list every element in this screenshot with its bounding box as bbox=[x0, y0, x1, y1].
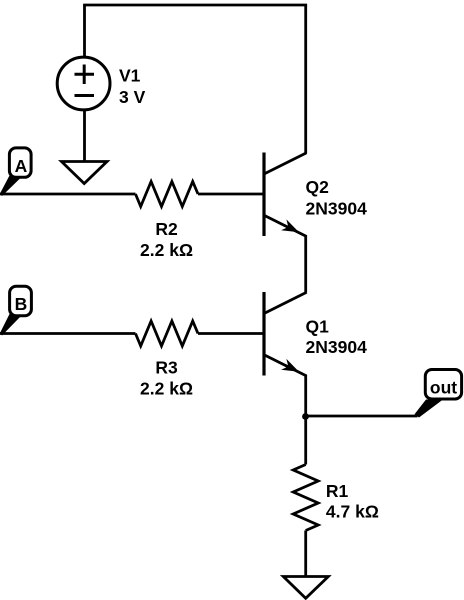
wire out bbox=[306, 415, 418, 418]
resistor R1 bbox=[293, 465, 318, 531]
svg-text:4.7 kΩ: 4.7 kΩ bbox=[326, 502, 379, 522]
ground (bottom) bbox=[283, 577, 328, 599]
resistor R2 bbox=[136, 182, 199, 207]
ground (V1) bbox=[62, 162, 108, 184]
node out bbox=[415, 370, 462, 418]
svg-text:2N3904: 2N3904 bbox=[306, 198, 368, 218]
svg-text:3 V: 3 V bbox=[119, 87, 146, 107]
wire V1 bottom to ground bbox=[83, 110, 86, 162]
svg-text:V1: V1 bbox=[119, 66, 141, 86]
node B bbox=[0, 286, 31, 335]
junction node bbox=[302, 413, 309, 420]
svg-text:Q2: Q2 bbox=[306, 177, 330, 197]
wire B bbox=[0, 332, 136, 335]
svg-text:A: A bbox=[15, 156, 28, 176]
svg-text:R3: R3 bbox=[155, 358, 178, 378]
svg-text:R2: R2 bbox=[155, 219, 178, 239]
resistor R3 bbox=[136, 321, 199, 346]
node A bbox=[0, 148, 31, 196]
wire A bbox=[0, 193, 136, 196]
svg-text:2.2 kΩ: 2.2 kΩ bbox=[140, 379, 193, 399]
svg-text:out: out bbox=[430, 377, 457, 397]
svg-text:R1: R1 bbox=[326, 481, 349, 501]
voltage source V1 bbox=[57, 57, 110, 110]
wire Q2 emitter to Q1 collector bbox=[304, 236, 307, 293]
wire Q1 emitter down to junction bbox=[304, 375, 307, 417]
transistor Q2 bbox=[263, 153, 307, 237]
svg-text:Q1: Q1 bbox=[306, 317, 330, 337]
svg-text:2N3904: 2N3904 bbox=[306, 337, 368, 357]
wire top rail down to Q2 collector bbox=[304, 5, 307, 153]
wire junction to R1 bbox=[304, 416, 307, 465]
wire V1 top stub bbox=[83, 5, 86, 58]
wire R1 to ground bbox=[304, 531, 307, 577]
svg-text:2.2 kΩ: 2.2 kΩ bbox=[140, 240, 193, 260]
wire top rail bbox=[83, 4, 307, 7]
wire R3 to Q1 base bbox=[198, 332, 263, 335]
wire R2 to Q2 base bbox=[198, 193, 263, 196]
transistor Q1 bbox=[263, 292, 307, 376]
svg-text:B: B bbox=[15, 294, 28, 314]
